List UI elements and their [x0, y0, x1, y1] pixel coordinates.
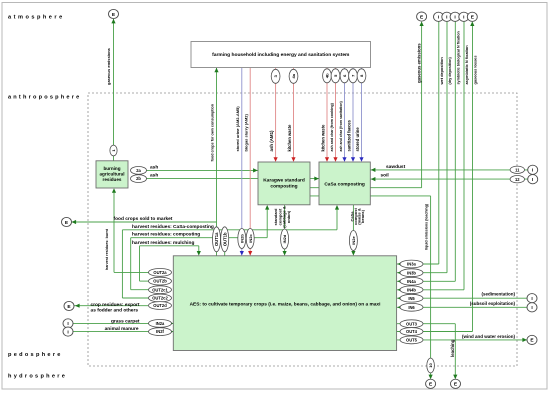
svg-text:hydrosphere: hydrosphere: [8, 374, 67, 380]
svg-text:IN2a: IN2a: [156, 321, 165, 326]
svg-text:OUT2a: OUT2a: [153, 270, 167, 275]
svg-text:IN3b: IN3b: [407, 270, 416, 275]
svg-text:OUT5: OUT5: [406, 338, 418, 343]
svg-text:animal manure: animal manure: [105, 326, 139, 332]
svg-text:wet deposition: wet deposition: [439, 57, 444, 86]
svg-text:ash and char (from sanitation): ash and char (from sanitation): [339, 101, 343, 151]
svg-text:IN2d: IN2d: [282, 234, 287, 243]
svg-text:OUT1b: OUT1b: [222, 232, 227, 246]
svg-text:IN2f: IN2f: [156, 329, 164, 334]
svg-text:asymbiotic N fixation: asymbiotic N fixation: [464, 45, 469, 85]
svg-text:stored urine (AM2-AM5): stored urine (AM2-AM5): [235, 106, 240, 152]
svg-text:gaseous losses: gaseous losses: [472, 56, 477, 85]
svg-text:crop residues: export: crop residues: export: [90, 302, 139, 308]
svg-text:kitchen waste: kitchen waste: [320, 124, 325, 152]
svg-text:(subsoil exploitation): (subsoil exploitation): [470, 301, 516, 306]
svg-text:IN2e: IN2e: [351, 236, 356, 245]
svg-text:biogas slurry (AM2): biogas slurry (AM2): [243, 113, 248, 151]
svg-text:12: 12: [515, 177, 520, 182]
svg-text:11: 11: [515, 167, 520, 172]
svg-text:OUT4: OUT4: [406, 329, 418, 334]
svg-text:AES: to cultivate temporary cr: AES: to cultivate temporary crops (i.e. …: [190, 302, 381, 308]
svg-text:harvest residues: burnt: harvest residues: burnt: [105, 228, 109, 270]
svg-text:10: 10: [428, 363, 433, 368]
svg-text:food crops for own consumption: food crops for own consumption: [211, 103, 215, 161]
svg-text:agricultural: agricultural: [99, 172, 124, 177]
svg-text:4b: 4b: [325, 73, 330, 78]
svg-text:grass carpet: grass carpet: [111, 318, 140, 324]
svg-text:burning: burning: [103, 166, 120, 171]
svg-text:kitchen waste: kitchen waste: [287, 124, 292, 152]
svg-text:(wind and water erosion): (wind and water erosion): [462, 334, 516, 339]
svg-text:IN6: IN6: [408, 305, 415, 310]
svg-text:ash: ash: [150, 173, 158, 179]
svg-text:harvest residues: mulching: harvest residues: mulching: [132, 240, 194, 246]
svg-text:ash and char (from cooking): ash and char (from cooking): [330, 102, 334, 151]
svg-text:IN4a: IN4a: [407, 279, 416, 284]
svg-text:2b: 2b: [136, 176, 141, 181]
svg-text:IN2c: IN2c: [248, 234, 253, 243]
svg-text:onion): onion): [286, 210, 291, 223]
svg-text:ash: ash: [150, 164, 158, 170]
svg-text:gaseous emissions: gaseous emissions: [417, 43, 422, 83]
svg-text:2a: 2a: [136, 168, 141, 173]
svg-text:composting: composting: [270, 184, 297, 190]
svg-text:leaching: leaching: [450, 339, 455, 357]
svg-text:ash (AM1): ash (AM1): [269, 130, 274, 152]
svg-text:harvest residues: CaSa-compost: harvest residues: CaSa-composting: [132, 224, 214, 230]
svg-text:IN5: IN5: [408, 296, 415, 301]
svg-text:OUT2c1: OUT2c1: [152, 287, 168, 292]
svg-text:IN4b: IN4b: [407, 287, 416, 292]
svg-text:beans): beans): [360, 209, 365, 223]
svg-text:symbiotic biological N fixatio: symbiotic biological N fixation: [456, 30, 460, 84]
svg-text:soil: soil: [381, 173, 389, 179]
svg-text:OUT2c2: OUT2c2: [152, 296, 168, 301]
svg-text:gaseous emissions: gaseous emissions: [106, 47, 111, 85]
svg-text:(dry deposition): (dry deposition): [448, 57, 452, 85]
svg-text:farming household including en: farming household including energy and s…: [212, 52, 350, 58]
svg-text:anthroposphere: anthroposphere: [8, 94, 81, 100]
svg-text:sawdust: sawdust: [386, 164, 406, 170]
svg-text:atmosphere: atmosphere: [8, 15, 65, 21]
svg-text:Karagwe standard: Karagwe standard: [263, 178, 305, 184]
svg-text:as fodder and others: as fodder and others: [91, 308, 139, 314]
svg-text:pedosphere: pedosphere: [8, 352, 63, 358]
svg-text:IN3a: IN3a: [407, 262, 416, 267]
svg-text:residues: residues: [103, 177, 122, 182]
svg-text:harvest residues: composting: harvest residues: composting: [132, 232, 200, 238]
svg-text:(sedimentation): (sedimentation): [481, 292, 515, 297]
svg-text:OUT2b: OUT2b: [153, 279, 167, 284]
svg-text:OUT1a: OUT1a: [214, 232, 219, 246]
svg-text:food crops sold to market: food crops sold to market: [114, 216, 173, 222]
svg-text:OUT3: OUT3: [406, 321, 418, 326]
svg-text:4a: 4a: [291, 73, 296, 78]
svg-text:OUT2d: OUT2d: [153, 303, 167, 308]
svg-text:sanitized faeces: sanitized faeces: [346, 119, 351, 151]
svg-text:IN2b: IN2b: [239, 234, 244, 243]
svg-text:CaSa composting: CaSa composting: [324, 182, 365, 188]
svg-text:stored urine: stored urine: [355, 127, 360, 152]
svg-text:liquid emissions (leaching): liquid emissions (leaching): [425, 203, 429, 250]
